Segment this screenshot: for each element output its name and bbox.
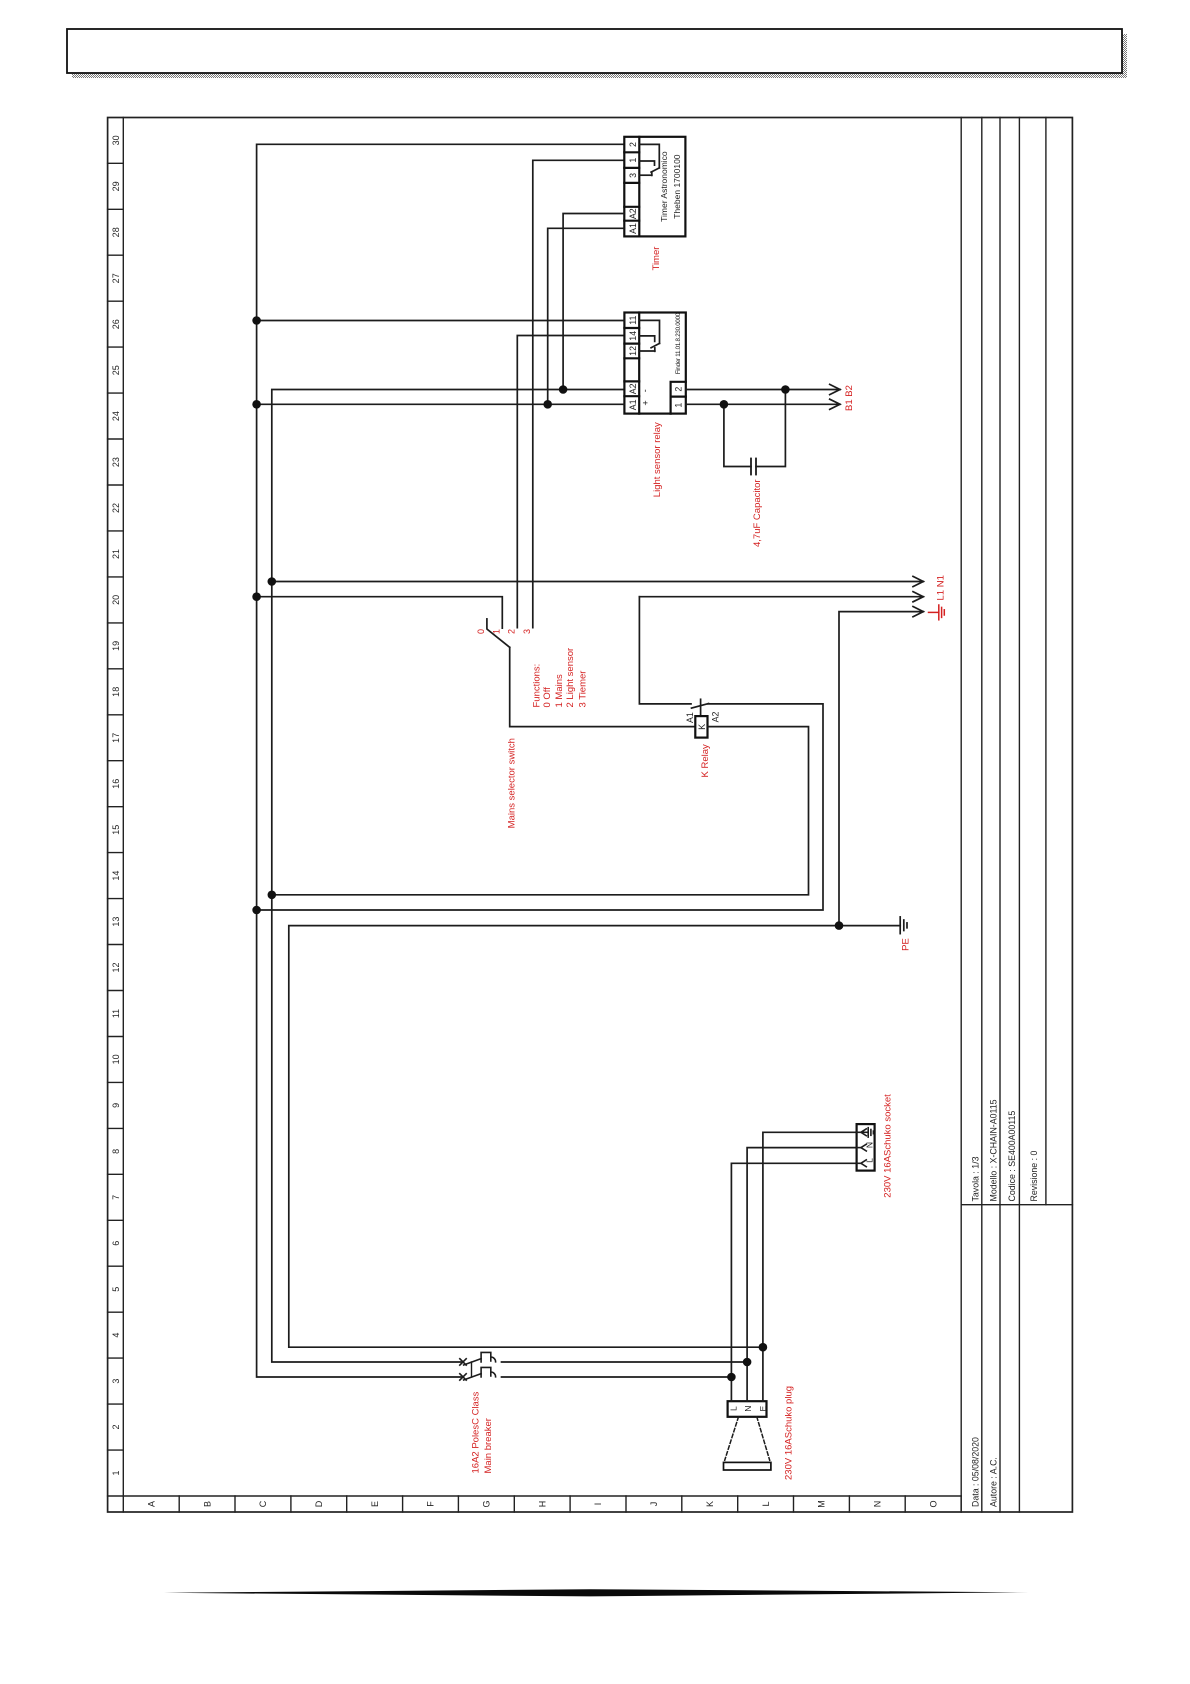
svg-text:Main breaker: Main breaker (483, 1418, 494, 1473)
svg-text:19: 19 (111, 641, 121, 651)
capacitor C1 wires (724, 390, 786, 467)
svg-text:Light sensor relay: Light sensor relay (652, 422, 663, 497)
svg-text:A1: A1 (628, 399, 638, 410)
svg-text:Timer: Timer (651, 247, 662, 271)
svg-text:Timer Astronomico: Timer Astronomico (659, 151, 669, 222)
svg-text:5: 5 (111, 1287, 121, 1292)
junction B2 line / capacitor (781, 385, 790, 394)
wire timer A2 tap (563, 214, 624, 390)
svg-text:L: L (761, 1501, 771, 1506)
arrow L1 (913, 592, 923, 602)
svg-text:25: 25 (111, 365, 121, 375)
svg-text:2: 2 (674, 387, 684, 392)
svg-text:6: 6 (111, 1241, 121, 1246)
svg-text:A2: A2 (628, 383, 638, 394)
plug terminal box (728, 1401, 767, 1417)
wire PE rail (289, 926, 900, 1348)
svg-text:J: J (649, 1502, 659, 1507)
svg-text:B: B (202, 1501, 212, 1507)
wire E to socket (763, 1132, 857, 1347)
svg-text:20: 20 (111, 595, 121, 605)
svg-text:28: 28 (111, 227, 121, 237)
relay output terminal boxes 1 and 2 (671, 382, 686, 414)
svg-text:D: D (314, 1500, 324, 1507)
svg-text:2: 2 (111, 1424, 121, 1429)
svg-text:15: 15 (111, 825, 121, 835)
svg-text:0 Off: 0 Off (542, 687, 553, 708)
svg-text:17: 17 (111, 733, 121, 743)
wire timer A1 tap (548, 228, 625, 404)
svg-text:2 Light sensor: 2 Light sensor (565, 648, 576, 708)
row ruler strip (letters A-O) (123, 1496, 961, 1512)
svg-text:12: 12 (628, 346, 638, 356)
wire plug N to junction (746, 1362, 748, 1401)
svg-text:18: 18 (111, 687, 121, 697)
wire selector position-3 to timer pin 1 (533, 160, 625, 627)
svg-text:Mains selector switch: Mains selector switch (507, 738, 518, 828)
svg-text:A: A (146, 1501, 156, 1507)
svg-text:E: E (758, 1405, 768, 1411)
relay K coil box (695, 716, 707, 738)
svg-text:3: 3 (628, 173, 638, 178)
svg-text:13: 13 (111, 917, 121, 927)
wire K coil to N rail return (272, 727, 809, 895)
earth symbol red at PE arrow (929, 605, 945, 620)
svg-text:29: 29 (111, 181, 121, 191)
svg-text:Theben 1700100: Theben 1700100 (672, 154, 682, 219)
svg-text:G: G (482, 1500, 492, 1507)
svg-text:27: 27 (111, 273, 121, 283)
row letters (146, 1500, 938, 1508)
junction L wire / plug L (727, 1373, 736, 1382)
wire L1 outgoing (639, 596, 923, 598)
svg-text:B1 B2: B1 B2 (844, 385, 855, 411)
socket contact L (857, 1160, 867, 1167)
junction relay A1 line / timer A1 tap (543, 400, 552, 409)
plug face plate (724, 1462, 771, 1470)
svg-text:1: 1 (111, 1470, 121, 1475)
junction L rail / relay pin 11 branch (252, 316, 261, 325)
svg-text:Functions:: Functions: (531, 664, 542, 708)
svg-text:9: 9 (111, 1103, 121, 1108)
svg-text:24: 24 (111, 411, 121, 421)
svg-text:11: 11 (628, 316, 638, 325)
svg-text:O: O (928, 1500, 938, 1507)
svg-text:C: C (258, 1500, 268, 1507)
label Functions list (531, 648, 588, 708)
svg-text:Codice : SE400A00115: Codice : SE400A00115 (1007, 1111, 1017, 1202)
svg-text:N: N (743, 1405, 753, 1411)
svg-text:3: 3 (522, 629, 532, 634)
svg-text:1 Mains: 1 Mains (554, 674, 565, 708)
svg-text:1: 1 (491, 629, 501, 634)
svg-text:0: 0 (476, 629, 486, 634)
arrow PE (913, 607, 923, 617)
svg-text:H: H (537, 1501, 547, 1508)
relay internal changeover contact (639, 320, 659, 351)
arrow B1 (830, 399, 840, 409)
timer internal changeover contact (639, 144, 659, 175)
junction PE wire / plug E (759, 1343, 768, 1352)
junction B1 line / capacitor (720, 400, 729, 409)
wire selector position-1 from L rail (257, 597, 503, 628)
breaker pole N (460, 1352, 496, 1365)
title block texts (970, 1099, 1039, 1507)
wire relay A1 drop (257, 403, 625, 405)
junction N wire / plug N (743, 1358, 752, 1367)
svg-text:30: 30 (111, 135, 121, 145)
svg-text:4: 4 (111, 1333, 121, 1338)
wire plug E to junction (762, 1347, 764, 1401)
svg-text:26: 26 (111, 319, 121, 329)
svg-text:Autore : A.C.: Autore : A.C. (989, 1457, 999, 1507)
socket box (857, 1124, 875, 1171)
svg-text:+: + (641, 400, 651, 405)
svg-text:7: 7 (111, 1195, 121, 1200)
svg-text:K: K (705, 1501, 715, 1507)
svg-text:14: 14 (628, 331, 638, 341)
svg-text:-: - (640, 389, 650, 392)
selector switch blade (487, 629, 510, 647)
svg-text:N: N (873, 1501, 883, 1508)
scan artifact line at bottom (164, 1589, 1029, 1596)
svg-text:L1 N1: L1 N1 (936, 575, 947, 600)
wire L to socket (731, 1163, 856, 1377)
svg-text:M: M (817, 1500, 827, 1508)
svg-text:E: E (370, 1501, 380, 1507)
wire plug L to junction (730, 1377, 732, 1401)
title block grid (961, 118, 1072, 1513)
selector position-0 stub (486, 619, 488, 628)
header box (67, 29, 1122, 73)
svg-text:A1: A1 (628, 223, 638, 234)
junction N rail / N1 outgoing (268, 577, 277, 586)
svg-text:230V 16ASchuko plug: 230V 16ASchuko plug (783, 1386, 794, 1480)
timer terminal row (624, 137, 639, 237)
socket contact N (857, 1144, 867, 1151)
svg-text:Modello : X-CHAIN-A0115: Modello : X-CHAIN-A0115 (989, 1099, 999, 1201)
svg-text:2: 2 (628, 142, 638, 147)
wire selector position-2 to relay pin 14 (517, 336, 624, 628)
junction PE rail / PE outgoing (835, 921, 844, 930)
svg-text:N: N (864, 1142, 874, 1148)
svg-text:11: 11 (111, 1009, 121, 1018)
socket contact E (857, 1128, 874, 1137)
breaker mechanical tie (471, 1362, 473, 1377)
timer pin labels (628, 142, 638, 234)
svg-text:12: 12 (111, 962, 121, 972)
svg-text:A1: A1 (685, 712, 695, 723)
svg-text:A2: A2 (628, 208, 638, 219)
column numbers (111, 135, 121, 1475)
header box shadow (72, 34, 1127, 78)
sheet frame (108, 118, 1073, 1513)
relay coil polarity signs (640, 389, 651, 405)
junction L rail / selector position 1 (252, 592, 261, 601)
wire selector common (510, 647, 696, 726)
wire N rail (breaker N to relay A2) (272, 390, 625, 1363)
svg-text:L: L (728, 1406, 738, 1411)
wire PE outgoing (839, 612, 923, 926)
junction relay A2 line / timer A2 tap (559, 385, 568, 394)
svg-text:Data : 05/08/2020: Data : 05/08/2020 (970, 1437, 980, 1507)
svg-text:PE: PE (901, 938, 912, 951)
contact K (normally open) (692, 699, 709, 716)
relay U2 box (624, 313, 685, 414)
svg-text:L: L (864, 1158, 874, 1163)
svg-text:4,7uF Capacitor: 4,7uF Capacitor (752, 479, 763, 547)
svg-text:21: 21 (111, 549, 121, 559)
svg-text:10: 10 (111, 1054, 121, 1064)
wire B2 from relay pin 2 (686, 389, 840, 391)
svg-text:22: 22 (111, 503, 121, 513)
wire K-contact return to L rail (257, 704, 823, 910)
wire N1 outgoing (272, 581, 924, 583)
capacitor C1 plates (751, 459, 756, 475)
svg-text:23: 23 (111, 457, 121, 467)
ground PE earth symbol (900, 917, 907, 934)
wire K-contact upper segment to L1 line (639, 597, 691, 704)
arrow B2 (830, 384, 840, 394)
wire N to socket (747, 1148, 857, 1362)
svg-text:1: 1 (628, 158, 638, 163)
timer U1 box (624, 137, 685, 237)
svg-text:I: I (593, 1503, 603, 1506)
wire B1 from relay pin 1 (686, 403, 840, 405)
selector position digits (476, 629, 532, 634)
column ruler strip (numbers 1-30) (108, 118, 962, 1497)
svg-text:8: 8 (111, 1149, 121, 1154)
svg-text:3 Tiemer: 3 Tiemer (578, 671, 589, 708)
svg-text:16: 16 (111, 779, 121, 789)
svg-text:K: K (697, 724, 707, 730)
socket terminal labels (864, 1142, 874, 1163)
svg-text:A2: A2 (710, 712, 720, 723)
svg-text:K Relay: K Relay (700, 744, 711, 778)
label Main breaker (470, 1391, 494, 1473)
svg-text:F: F (426, 1501, 436, 1507)
plug terminal labels (728, 1405, 768, 1411)
svg-text:16A2 PolesC Class: 16A2 PolesC Class (470, 1391, 481, 1473)
arrow N1 (913, 576, 923, 586)
breaker pole L (460, 1367, 496, 1380)
svg-text:14: 14 (111, 871, 121, 881)
wire relay pin 11 drop (257, 320, 625, 322)
junction L rail / relay A1 branch (252, 400, 261, 409)
junction L rail / K contact return (252, 906, 261, 915)
relay output pin labels (674, 387, 684, 408)
svg-text:3: 3 (111, 1379, 121, 1384)
svg-text:Tavola : 1/3: Tavola : 1/3 (970, 1156, 980, 1201)
timer type text (659, 151, 682, 222)
svg-text:2: 2 (506, 629, 516, 634)
svg-text:230V 16ASchuko socket: 230V 16ASchuko socket (883, 1094, 894, 1198)
plug body dashed (725, 1417, 770, 1461)
relay pin labels (628, 316, 638, 411)
junction N rail / K coil return (268, 891, 277, 900)
svg-text:Revisione : 0: Revisione : 0 (1029, 1151, 1039, 1202)
svg-text:1: 1 (674, 403, 684, 408)
relay terminal row (624, 313, 639, 414)
svg-text:Finder 11.01.8.230.0000: Finder 11.01.8.230.0000 (675, 312, 682, 374)
wire L rail (breaker L to timer pin 2) (257, 144, 625, 1377)
